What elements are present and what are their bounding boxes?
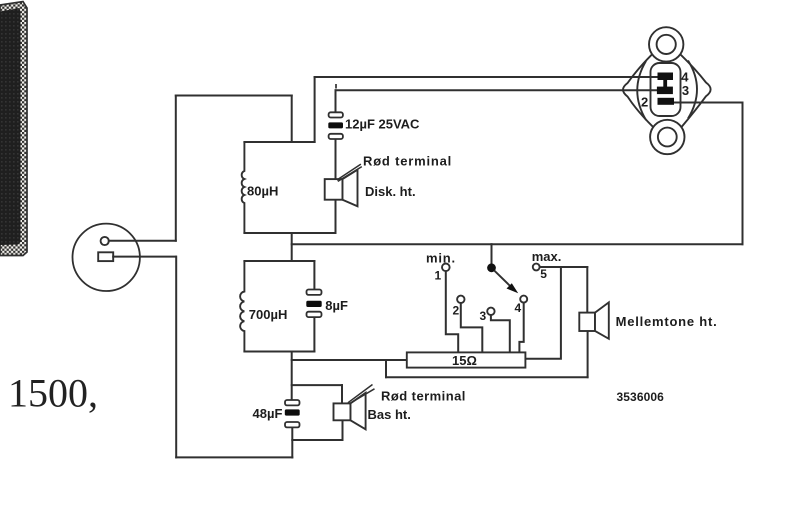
wire 700uH box bottom edge bbox=[244, 351, 314, 353]
wire tip pin to left bus bbox=[109, 240, 176, 242]
svg-text:Bas ht.: Bas ht. bbox=[368, 407, 411, 422]
svg-text:80µH: 80µH bbox=[247, 184, 278, 199]
svg-text:2: 2 bbox=[641, 95, 648, 110]
svg-text:8µF: 8µF bbox=[325, 298, 348, 313]
wire 700uH box right upper bbox=[313, 261, 315, 290]
svg-text:5: 5 bbox=[540, 267, 547, 281]
wire 700uH box top edge bbox=[244, 260, 314, 262]
inductor L 80uH coil bbox=[242, 142, 245, 233]
pointer arrow to tweeter red terminal bbox=[337, 164, 362, 181]
DIN pin 2 bar bbox=[658, 98, 675, 105]
wire bottom return rail bbox=[176, 456, 292, 458]
wire rail 2 to connector pin 3 bbox=[336, 89, 658, 91]
DIN connector bottom ear bbox=[650, 120, 684, 154]
DIN connector inner arc right bbox=[688, 61, 697, 119]
wire 80uH box top edge bbox=[244, 141, 314, 143]
DIN pin 4-3 link stem bbox=[663, 79, 667, 88]
wire cap 12uF bottom lead to tweeter bbox=[335, 139, 337, 179]
terminal 4 circle bbox=[520, 296, 527, 303]
svg-text:3: 3 bbox=[682, 83, 689, 98]
wire terminal 3 drop bbox=[491, 315, 510, 352]
wire to resistor left end bbox=[292, 359, 407, 361]
input jack circle bbox=[73, 224, 140, 291]
capacitor 48uF plates bbox=[285, 400, 300, 427]
DIN pin 3 bar bbox=[657, 87, 673, 95]
terminal 1 circle bbox=[442, 264, 450, 272]
wire cap 12uF top lead bbox=[335, 90, 337, 112]
wire terminal 2 drop bbox=[461, 303, 483, 352]
wire 80uH box bottom edge bbox=[244, 232, 335, 234]
DIN connector pin field bbox=[651, 63, 681, 116]
svg-text:Mellemtone ht.: Mellemtone ht. bbox=[616, 314, 718, 329]
wire drop to 80uH box top bbox=[291, 96, 293, 143]
svg-text:Rød terminal: Rød terminal bbox=[363, 154, 452, 169]
svg-text:1: 1 bbox=[435, 269, 442, 283]
svg-text:700µH: 700µH bbox=[249, 307, 288, 322]
wire tweeter to 80uH box bottom bbox=[335, 200, 337, 233]
wire terminal 1 drop bbox=[446, 271, 458, 352]
DIN connector inner arc left bbox=[637, 61, 646, 120]
wire mid rail bbox=[292, 243, 743, 245]
wire bas speaker top lead bbox=[341, 385, 343, 403]
wire midrange speaker bottom lead bbox=[587, 331, 589, 377]
input jack sleeve pin bbox=[98, 252, 113, 261]
DIN connector outline body bbox=[623, 27, 711, 154]
wire 700uH box right lower bbox=[313, 318, 315, 352]
wire below 48uF cap bbox=[291, 428, 293, 458]
wire bas speaker bottom lead bbox=[292, 420, 342, 440]
wire stub to wiper dot bbox=[491, 244, 493, 264]
svg-text:min.: min. bbox=[426, 251, 456, 266]
svg-text:4: 4 bbox=[515, 301, 522, 315]
speaker woofer Bas ht bbox=[334, 393, 366, 430]
terminal 3 circle bbox=[487, 308, 494, 315]
svg-text:3536006: 3536006 bbox=[617, 390, 665, 404]
wire midrange return bottom bbox=[386, 376, 588, 378]
speaker tweeter Disk ht bbox=[325, 170, 358, 207]
wire sleeve pin to lower bus bbox=[113, 256, 176, 258]
svg-text:1500,: 1500, bbox=[8, 371, 98, 416]
wire riser to rail 1 bbox=[314, 77, 316, 142]
terminal 5 circle bbox=[533, 264, 540, 271]
DIN connector top ear bbox=[649, 27, 683, 61]
junction tick above rail 2 bbox=[335, 84, 337, 89]
inductor L 700uH coil bbox=[240, 261, 244, 352]
wire max terminal lead bbox=[540, 266, 588, 268]
wire riser to connector pin 2 bbox=[742, 103, 744, 245]
resistor 15 ohm body bbox=[407, 352, 526, 367]
wiper arrow to terminal 4 bbox=[494, 271, 518, 294]
wire bas branch top bbox=[292, 384, 342, 386]
input jack tip pin bbox=[101, 237, 109, 245]
capacitor 8uF plates bbox=[306, 290, 321, 318]
svg-text:Rød terminal: Rød terminal bbox=[381, 389, 466, 404]
wire drop below 700uH bbox=[291, 352, 293, 401]
photo edge strip (top-left scanned photo fragment) bbox=[0, 2, 27, 256]
pointer arrow to woofer red terminal bbox=[348, 385, 375, 404]
svg-text:2: 2 bbox=[453, 304, 460, 318]
DIN pin 4 bar bbox=[658, 73, 674, 81]
wire T drop under resistor bbox=[385, 360, 387, 377]
wire rail 1 to connector pin 4 bbox=[315, 76, 658, 78]
svg-text:48µF: 48µF bbox=[253, 406, 283, 421]
wire junction drop 80uH to 700uH bbox=[291, 233, 293, 261]
wiper junction dot bbox=[487, 263, 496, 272]
svg-text:3: 3 bbox=[480, 309, 487, 323]
terminal 2 circle bbox=[457, 296, 464, 303]
wires: main nets bbox=[109, 77, 743, 458]
wire upper left bus bbox=[175, 96, 177, 241]
wire terminal 4 drop bbox=[519, 303, 523, 353]
wire connector pin 2 lead bbox=[674, 102, 743, 104]
svg-text:12µF 25VAC: 12µF 25VAC bbox=[345, 117, 420, 132]
wire max to resistor right end bbox=[525, 267, 561, 359]
svg-text:max.: max. bbox=[532, 249, 562, 264]
svg-text:Disk. ht.: Disk. ht. bbox=[365, 184, 416, 199]
wire top horizontal bbox=[176, 95, 292, 97]
wire midrange speaker top lead bbox=[586, 267, 588, 313]
capacitor 12uF plates bbox=[328, 112, 343, 139]
svg-text:15Ω: 15Ω bbox=[452, 353, 477, 368]
wire lower left bus bbox=[175, 257, 177, 458]
speaker midrange Mellemtone ht bbox=[579, 302, 609, 338]
